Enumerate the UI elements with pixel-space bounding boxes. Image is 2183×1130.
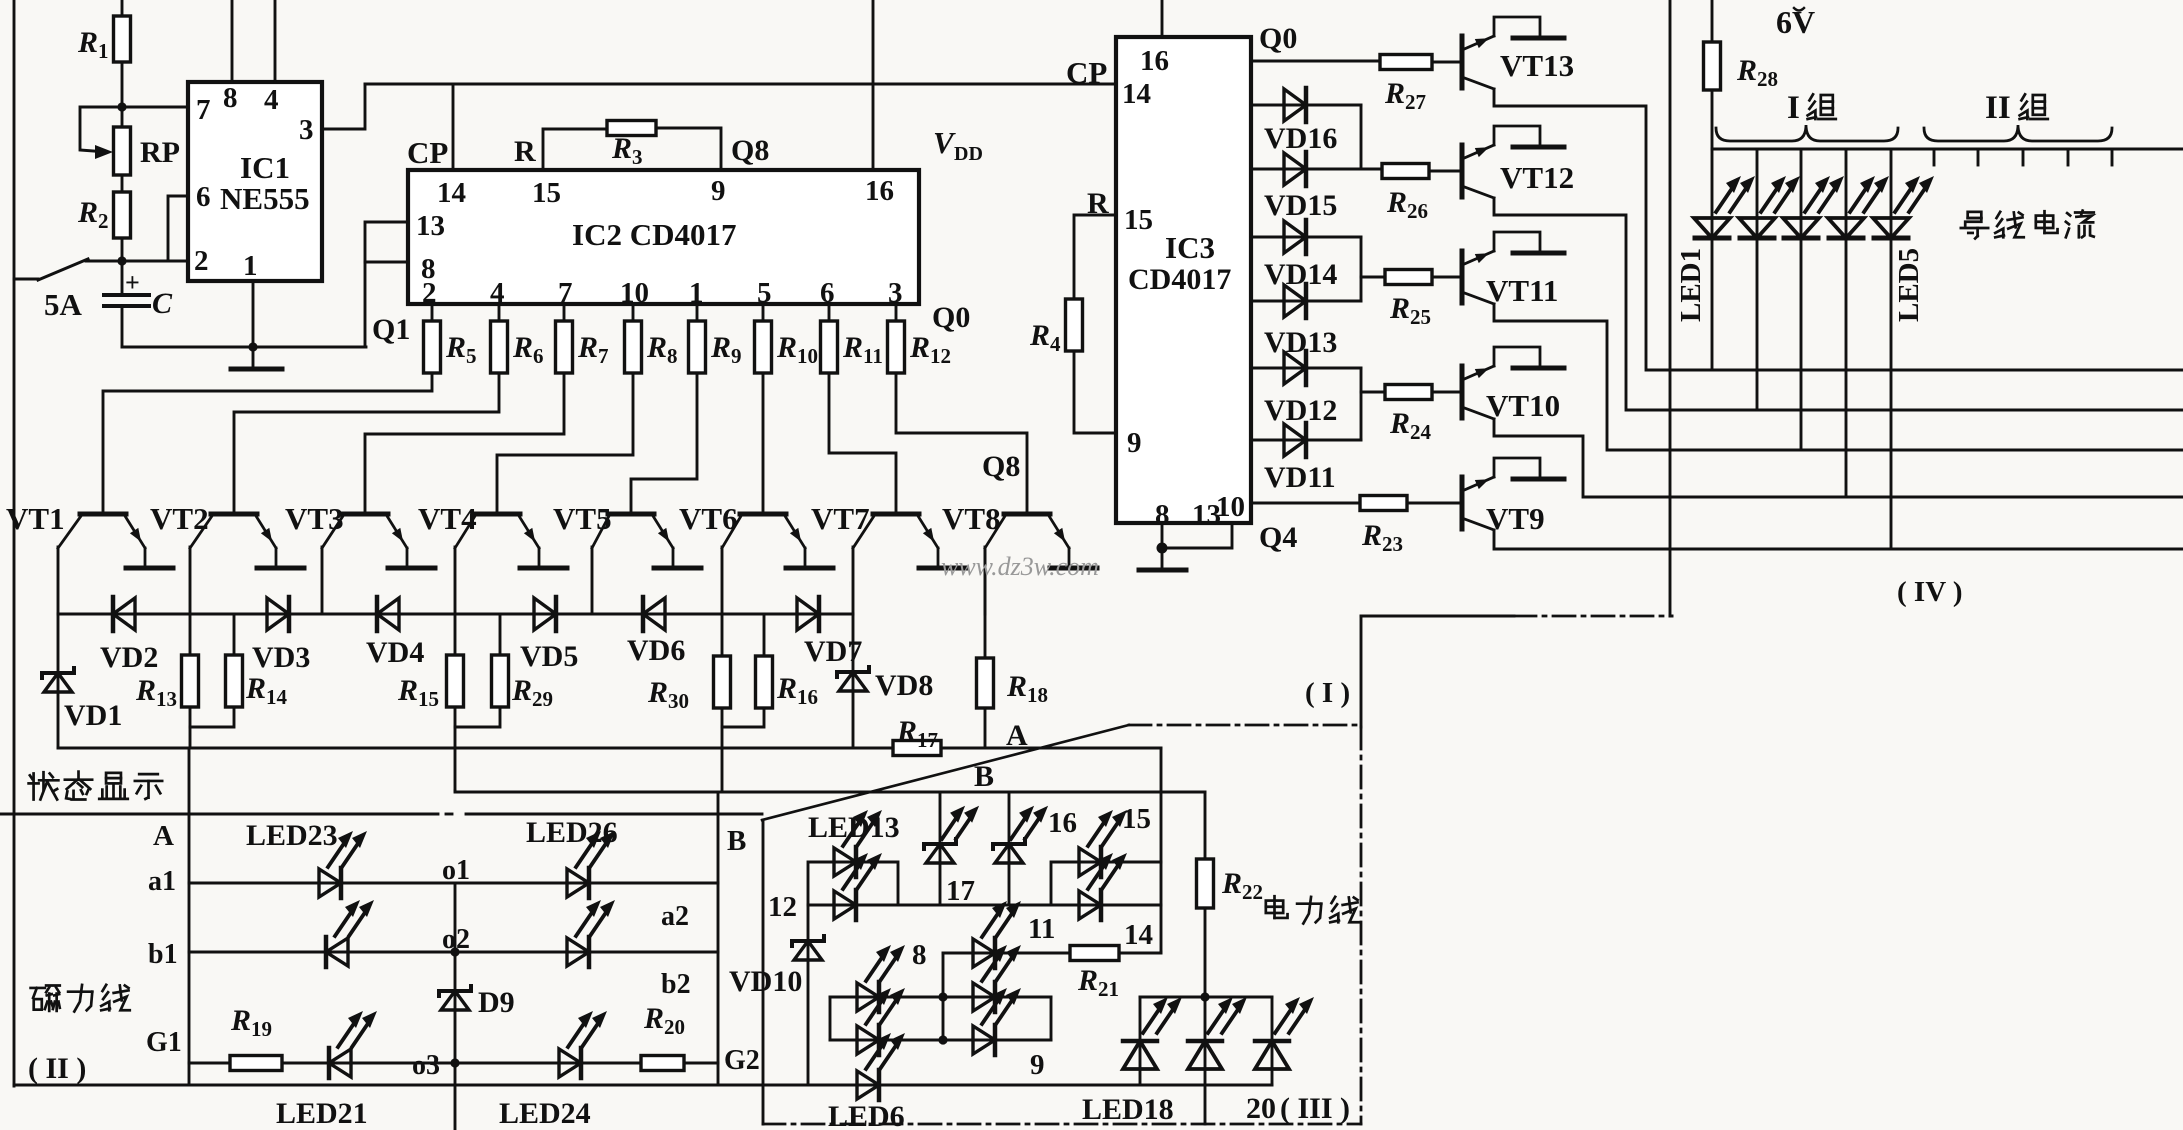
svg-text:a2: a2 [661, 901, 689, 932]
svg-text:( II ): ( II ) [28, 1052, 86, 1085]
svg-text:R: R [514, 135, 536, 168]
svg-text:V: V [933, 125, 956, 160]
svg-text:1: 1 [243, 250, 258, 282]
wire R5 to VT1 base [103, 373, 432, 514]
resistor R28 [1704, 42, 1779, 91]
label LED6 [828, 1100, 905, 1130]
wire VT5 collector [591, 547, 594, 614]
resistor R5 [424, 321, 477, 373]
diode VD13 [1264, 284, 1337, 359]
diode VD4 [366, 597, 424, 669]
wire LED18 drop [1204, 1085, 1207, 1124]
wire R23 to VT9 [1407, 502, 1462, 505]
wire VT12 collector route [1494, 198, 2183, 410]
svg-text:7: 7 [196, 94, 211, 126]
svg-text:14: 14 [1122, 78, 1151, 110]
label magnetic-lines [31, 985, 130, 1012]
wire LED18 v3 [1271, 997, 1274, 1085]
svg-text:IC1: IC1 [240, 150, 290, 185]
resistor R1 [77, 16, 131, 63]
wire LED2 cathode [1756, 238, 1759, 410]
wire R8 to VT4 base [497, 373, 633, 514]
svg-text:NE555: NE555 [220, 181, 310, 216]
wire long vertical IV [1669, 0, 1672, 616]
wire R28 to bus [1711, 90, 1714, 149]
node junction pin2 [117, 256, 126, 265]
wire VT8 to R18 [984, 548, 987, 658]
wire blockII left edge [188, 748, 191, 1085]
wire R22 column [1204, 792, 1207, 859]
wire IC2 pin14 stub [452, 84, 455, 170]
wire R4 bottom to pin9 [1074, 351, 1116, 433]
wire boundary left vert [1360, 616, 1363, 727]
svg-text:VT2: VT2 [150, 501, 209, 536]
node junction LED18 top [1200, 992, 1209, 1001]
resistor R14 [226, 614, 288, 709]
svg-text:Q4: Q4 [1259, 521, 1297, 554]
resistor R16 [756, 614, 819, 709]
svg-text:( III ): ( III ) [1280, 1092, 1350, 1125]
wire VD12 branch [1360, 368, 1363, 392]
wire VD13 branch [1361, 277, 1385, 301]
wire R25 to VT11 [1432, 276, 1462, 279]
svg-text:8: 8 [223, 82, 238, 114]
svg-text:a1: a1 [148, 866, 176, 897]
wire R7 to VT3 base [365, 373, 564, 514]
svg-text:LED1: LED1 [1675, 248, 1707, 322]
svg-text:VT8: VT8 [942, 501, 1001, 536]
svg-text:LED24: LED24 [499, 1097, 591, 1130]
diode VD14 [1264, 220, 1337, 291]
wire B rail [455, 791, 1205, 792]
resistor R24 [1385, 385, 1432, 445]
svg-text:DD: DD [954, 143, 983, 165]
label status-display [29, 772, 163, 800]
wire IC2 pin stub 3 [632, 304, 635, 321]
wire IC1 pin1 down [252, 281, 255, 369]
transistor VT7 [811, 501, 966, 568]
label Q8 IC3 [982, 450, 1020, 483]
resistor R26 [1382, 164, 1429, 224]
LED24 left [326, 900, 374, 967]
transistor VT4 [418, 501, 567, 568]
svg-text:VD5: VD5 [520, 640, 578, 673]
wire R1 to node7 [121, 62, 124, 107]
transistor VT10 [1462, 347, 1564, 423]
svg-text:4: 4 [264, 84, 279, 116]
wire IC2 pin stub 0 [431, 304, 434, 321]
wire R13 R14 join [190, 707, 234, 748]
svg-text:Q0: Q0 [1259, 22, 1297, 55]
label 17 [946, 875, 975, 907]
svg-text:B: B [727, 825, 746, 857]
label Q0 IC3 [1259, 22, 1297, 55]
LED9 left [857, 988, 905, 1055]
diode D9 [439, 986, 515, 1019]
diode VD1 [42, 668, 122, 732]
resistor R10 [755, 321, 819, 373]
diode VD12 [1264, 351, 1337, 427]
label o3 [412, 1050, 440, 1081]
resistor R3 [607, 121, 656, 170]
label B mid [974, 760, 994, 793]
transistor VT11 [1462, 232, 1564, 308]
node junction h4 [938, 992, 947, 1001]
wire IC2 pin8 stub [365, 262, 408, 347]
svg-text:Q8: Q8 [982, 450, 1020, 483]
wire LED supply bus [1712, 148, 2183, 151]
wire VT1 collector [57, 547, 60, 614]
svg-text:14: 14 [1124, 919, 1153, 951]
label b1 [148, 939, 178, 970]
label LED5 [1893, 248, 1925, 322]
transistor VT2 [150, 501, 304, 568]
svg-text:LED21: LED21 [276, 1097, 368, 1130]
LED13 top [834, 810, 882, 877]
wire blockII right edge [717, 814, 720, 1085]
svg-text:9: 9 [1030, 1049, 1045, 1081]
label B blockII [727, 825, 746, 857]
svg-text:VD4: VD4 [366, 636, 424, 669]
label o2 [442, 924, 470, 955]
svg-text:www.dz3w.com: www.dz3w.com [941, 552, 1099, 581]
svg-text:VD8: VD8 [875, 669, 933, 702]
wire cell16 left [939, 792, 942, 905]
wire IC2 pin stub 4 [696, 304, 699, 321]
wire ground rail [122, 346, 366, 349]
wire VD11 branch [1361, 392, 1385, 440]
label 15 [1122, 803, 1151, 835]
wire R26 to VT12 [1429, 170, 1462, 173]
svg-text:10: 10 [1216, 491, 1245, 523]
wire IC3 pin4 [1251, 236, 1361, 239]
svg-text:6: 6 [820, 277, 835, 309]
watermark [941, 552, 1099, 581]
LED15 bottom [1079, 853, 1127, 920]
diode VD16 [1264, 88, 1337, 155]
svg-text:4: 4 [490, 277, 505, 309]
wire cell16 right [1008, 792, 1011, 905]
wire VT13 collector route [1494, 89, 2183, 370]
svg-text:VD2: VD2 [100, 641, 158, 674]
svg-text:Q1: Q1 [372, 313, 410, 346]
label Q4 IC3 [1259, 521, 1297, 554]
svg-text:VD1: VD1 [64, 699, 122, 732]
resistor R4 [1029, 299, 1083, 356]
wire LED5 cathode [1890, 238, 1893, 549]
svg-text:CP: CP [407, 135, 448, 170]
label a1 [148, 866, 176, 897]
svg-text:16: 16 [1048, 807, 1077, 839]
resistor R27 [1380, 55, 1432, 115]
label A mid [1006, 719, 1028, 752]
ground [231, 367, 282, 372]
svg-text:VT5: VT5 [553, 501, 612, 536]
resistor R8 [625, 321, 678, 373]
wire separator [0, 813, 762, 816]
diode VD8 [837, 667, 933, 702]
wire A into blockIII [1160, 748, 1163, 952]
wire VD10 column [807, 905, 810, 1085]
wire VT7 collector [852, 547, 855, 614]
resistor R13 [135, 614, 199, 711]
svg-text:9: 9 [1127, 427, 1142, 459]
label LED23 [246, 819, 338, 852]
wire LED3 cathode [1800, 238, 1803, 450]
svg-text:15: 15 [532, 177, 561, 209]
wire R11 to VT7 base [829, 373, 896, 514]
resistor R12 [888, 321, 952, 373]
LED4 indicator [1828, 176, 1889, 238]
wire VDD riser [872, 0, 875, 170]
diode VD3 [252, 597, 310, 674]
svg-text:15: 15 [1122, 803, 1151, 835]
wire VT10 collector route [1494, 419, 2183, 497]
wire pin7 to IC1 [122, 106, 188, 109]
label 12 [768, 891, 797, 923]
wire IC3 gnd stubs [1162, 523, 1232, 570]
svg-text:12: 12 [768, 891, 797, 923]
wire LED4 anode [1845, 149, 1848, 238]
label 14 [1124, 919, 1153, 951]
label wire-current [1961, 211, 2094, 239]
resistor R20 [641, 1002, 685, 1071]
label LED13 [808, 811, 900, 844]
node junction h5 [938, 1035, 947, 1044]
wire group II tick 3 [2022, 149, 2025, 165]
wire VD1 branch [57, 614, 60, 748]
label b2 [661, 969, 691, 1000]
wire LED1 cathode [1711, 238, 1714, 370]
wire IC3 pin3 to R27 [1251, 60, 1380, 63]
wire LED5 anode [1890, 149, 1893, 238]
diode VD6 [627, 597, 685, 667]
LED5 indicator [1873, 176, 1934, 238]
wire IC3 pin2 [1251, 104, 1361, 107]
label 20 [1246, 1092, 1276, 1125]
wire a1 row [189, 882, 718, 885]
label 9 [1030, 1049, 1045, 1081]
LED3 indicator [1783, 176, 1844, 238]
wire IC3 pin5 [1251, 300, 1361, 303]
svg-text:CP: CP [1066, 55, 1107, 90]
diode VD15 [1264, 152, 1337, 222]
diode VD2 [100, 597, 158, 674]
svg-text:IC3: IC3 [1165, 230, 1215, 265]
wire H2 row12 [808, 904, 1161, 907]
wire R27 to VT13 [1432, 61, 1462, 64]
label power-lines [1266, 896, 1359, 923]
svg-text:6: 6 [196, 181, 211, 213]
wire H3 row11 [943, 952, 1161, 953]
label a2 [661, 901, 689, 932]
wire VD8 branch [852, 614, 855, 748]
label LED24 [499, 1097, 591, 1130]
resistor R19 [230, 1004, 282, 1071]
wire R28 top [1711, 0, 1714, 42]
svg-text:VT11: VT11 [1486, 273, 1558, 308]
svg-text:VT13: VT13 [1500, 48, 1574, 83]
wire IC3 pin1 [1251, 439, 1361, 442]
svg-text:RP: RP [140, 136, 180, 169]
svg-text:VT12: VT12 [1500, 160, 1574, 195]
wire IC2 pin stub 6 [828, 304, 831, 321]
wire v943 [942, 953, 945, 1040]
LED16 right [993, 806, 1048, 863]
label o1 [442, 855, 470, 886]
label Q0 IC2 [932, 301, 970, 334]
potentiometer RP [80, 107, 180, 175]
LED1 indicator [1694, 176, 1755, 238]
wire b1 row [189, 951, 718, 954]
svg-text:C: C [152, 287, 173, 320]
diode VD7 [797, 597, 862, 668]
diode VD10 [729, 936, 824, 998]
wire R12 to VT8 base [896, 373, 1027, 514]
svg-text:LED13: LED13 [808, 811, 900, 844]
wire R9 to VT5 base [631, 373, 697, 514]
LED6 [857, 1033, 905, 1100]
svg-text:3: 3 [299, 114, 314, 146]
svg-text:II: II [1985, 90, 2011, 126]
svg-text:2: 2 [422, 277, 437, 309]
LED15 top [1079, 810, 1127, 877]
transistor VT8 [942, 501, 1097, 568]
svg-text:VD10: VD10 [729, 965, 802, 998]
wire VT4 collector [454, 547, 457, 614]
wire R15 R29 join [455, 707, 500, 791]
LED18 b [1188, 997, 1247, 1069]
label R IC2 [514, 135, 536, 168]
wire v830 [829, 997, 832, 1040]
svg-text:VT7: VT7 [811, 501, 870, 536]
svg-text:( IV ): ( IV ) [1897, 576, 1963, 608]
svg-text:11: 11 [1028, 913, 1055, 945]
dash boundary I top [1129, 724, 1361, 727]
LED18 a [1123, 997, 1182, 1069]
resistor R23 [1360, 496, 1407, 557]
label block II [28, 1052, 86, 1085]
svg-text:I: I [1787, 90, 1800, 126]
label CP IC2 [407, 135, 448, 170]
label CP IC3 [1066, 55, 1107, 90]
LED23 [319, 831, 367, 898]
wire IC3 pin7 [1251, 367, 1361, 370]
diode VD11 [1264, 423, 1336, 494]
LED11 [973, 901, 1021, 968]
wire v1051 [1050, 997, 1053, 1040]
wire mid bus [58, 613, 853, 616]
IC1 NE555 [188, 82, 322, 282]
wire IC2 pin stub 1 [498, 304, 501, 321]
svg-text:D9: D9 [478, 986, 515, 1019]
wire IC2 pin stub 7 [895, 304, 898, 321]
node junction o2 [450, 947, 459, 956]
wire LED4 cathode [1845, 238, 1848, 497]
label 16 [1048, 807, 1077, 839]
svg-text:CD4017: CD4017 [1128, 263, 1231, 296]
wire group II tick 1 [1933, 149, 1936, 165]
wire R3 to pin9 [656, 128, 721, 170]
dash boundary IV corner [1361, 615, 1672, 618]
label G2 [724, 1045, 760, 1076]
resistor R11 [821, 321, 883, 373]
LED9 right [973, 988, 1021, 1055]
svg-text:VD6: VD6 [627, 634, 685, 667]
wire IC3 pin16 up [1161, 0, 1164, 37]
LED18 c [1255, 997, 1314, 1069]
IC3 CD4017 [1116, 37, 1251, 531]
label I group [1787, 90, 1836, 126]
LED24 right [559, 1011, 607, 1078]
node junction o3 [450, 1058, 459, 1067]
wire LED18 v1 [1139, 997, 1142, 1085]
resistor R17 [893, 715, 941, 756]
wire B drop blockII [717, 792, 720, 814]
wire group II tick 2 [1977, 149, 1980, 165]
wire LED18 cell top [1140, 996, 1272, 999]
svg-text:( I ): ( I ) [1305, 677, 1350, 709]
svg-text:VT3: VT3 [285, 501, 344, 536]
wire LED2 anode [1756, 149, 1759, 238]
svg-text:o1: o1 [442, 855, 470, 886]
LED16 left [924, 806, 979, 863]
wire IC2 pin stub 2 [563, 304, 566, 321]
transistor VT1 [6, 501, 173, 568]
wire R22 to LED18 [1204, 908, 1207, 997]
wire VT9 collector bus [1494, 530, 2183, 549]
LED21 left [329, 1011, 377, 1078]
wire H5 row9 [830, 1039, 1051, 1042]
svg-text:13: 13 [416, 210, 445, 242]
wire IC3 pin10 to R23 [1251, 502, 1360, 505]
diagonal wire B [762, 725, 1129, 820]
node junction gnd [248, 342, 257, 351]
resistor R9 [689, 321, 742, 373]
svg-text:VD12: VD12 [1264, 394, 1337, 427]
wire R1 top feed [121, 0, 124, 16]
wire G1 row [189, 1062, 718, 1065]
wire R4 top [1074, 215, 1116, 299]
svg-text:VT10: VT10 [1486, 388, 1560, 423]
wire group II tick 5 [2111, 149, 2114, 165]
LED8 right [973, 945, 1021, 1012]
LED8 left [857, 945, 905, 1012]
svg-text:16: 16 [865, 175, 894, 207]
svg-text:LED5: LED5 [1893, 248, 1925, 322]
svg-text:VD11: VD11 [1264, 461, 1336, 494]
svg-text:Q8: Q8 [731, 134, 769, 167]
svg-text:LED23: LED23 [246, 819, 338, 852]
capacitor C [104, 261, 173, 347]
wire LED13 cell [808, 862, 898, 905]
svg-text:b2: b2 [661, 969, 691, 1000]
label 8 [912, 939, 927, 971]
wire VT2 collector [189, 547, 192, 614]
svg-text:LED18: LED18 [1082, 1093, 1174, 1126]
label A blockII [153, 820, 174, 852]
svg-text:VD13: VD13 [1264, 326, 1337, 359]
wire IC1 pin3 to CP riser [322, 84, 365, 129]
LED26 bottom [567, 900, 615, 967]
resistor R18 [977, 658, 1049, 708]
wire IC2 pin stub 5 [762, 304, 765, 321]
wire node to RP [121, 107, 124, 127]
label II group [1985, 90, 2048, 126]
svg-text:5A: 5A [44, 287, 83, 322]
wire R2 to node2 [121, 238, 124, 261]
wire VD14 branch [1360, 237, 1363, 277]
